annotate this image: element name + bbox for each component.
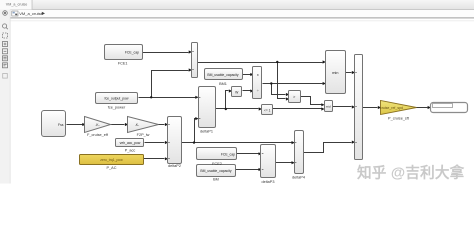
- svg-text:x: x: [257, 73, 259, 77]
- svg-text:mid: mid: [326, 105, 331, 109]
- svg-text:fce_output_pow: fce_output_pow: [105, 97, 129, 101]
- svg-text:P_acc: P_acc: [125, 149, 136, 153]
- svg-text:deltaP1: deltaP1: [200, 130, 213, 134]
- svg-text:VM_a_cruise: VM_a_cruise: [6, 3, 28, 7]
- svg-text:FCE_cap: FCE_cap: [221, 153, 235, 157]
- svg-text:deltaP2: deltaP2: [168, 164, 181, 168]
- svg-text:-K-: -K-: [95, 123, 99, 127]
- svg-text:BM1: BM1: [219, 82, 227, 86]
- svg-text:P_AC: P_AC: [107, 166, 117, 170]
- svg-text:F2P_lw: F2P_lw: [137, 133, 150, 137]
- svg-text:-K-: -K-: [135, 123, 139, 127]
- svg-text:BM_usable_capacity: BM_usable_capacity: [207, 73, 239, 77]
- svg-text:<= 1: <= 1: [264, 109, 271, 113]
- svg-text:FCE2: FCE2: [212, 162, 222, 166]
- svg-text:zero_trq1_pow: zero_trq1_pow: [100, 158, 123, 162]
- svg-text:BM_usable_capacity: BM_usable_capacity: [200, 169, 232, 173]
- svg-text:FCE1: FCE1: [118, 62, 128, 66]
- svg-text:min: min: [332, 70, 338, 75]
- svg-text:知乎 @吉利大拿: 知乎 @吉利大拿: [357, 164, 465, 182]
- svg-text:fce_power: fce_power: [108, 106, 126, 110]
- svg-text:Fss: Fss: [58, 123, 64, 127]
- svg-text:BM: BM: [213, 178, 219, 182]
- svg-text:P_cruise_sft: P_cruise_sft: [388, 117, 410, 121]
- svg-text:deltaP3: deltaP3: [262, 180, 275, 184]
- svg-text:cruise_ref_spd: cruise_ref_spd: [380, 106, 403, 110]
- svg-text:VM_a_cruise: VM_a_cruise: [19, 11, 43, 16]
- svg-text:deltaP4: deltaP4: [292, 176, 305, 180]
- svg-text:F_cruise_eff: F_cruise_eff: [87, 133, 109, 137]
- svg-text:÷: ÷: [257, 89, 259, 93]
- svg-text:FCE_cap: FCE_cap: [125, 51, 139, 55]
- svg-text:veh_acc_pow: veh_acc_pow: [120, 141, 141, 145]
